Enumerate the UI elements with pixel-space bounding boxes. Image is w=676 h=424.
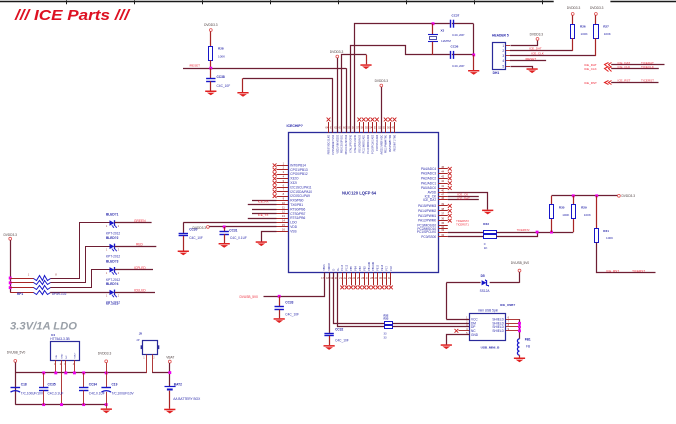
svg-text:55: 55 — [365, 125, 368, 129]
svg-text:BLED?1: BLED?1 — [106, 213, 119, 217]
svg-text:PA3/ADC3: PA3/ADC3 — [421, 172, 436, 176]
svg-text:PA15/PWM3: PA15/PWM3 — [418, 204, 436, 208]
svg-text:TICERST2: TICERST2 — [456, 219, 469, 223]
svg-text:C18: C18 — [21, 383, 27, 387]
svg-text:KP-2012: KP-2012 — [106, 302, 119, 306]
svg-text:DVDD3.3: DVDD3.3 — [3, 233, 17, 237]
svg-text:BLED?2: BLED?2 — [106, 236, 119, 240]
svg-text:C4C,20P: C4C,20P — [452, 33, 464, 37]
svg-text:PB10/CS1/SPISS2: PB10/CS1/SPISS2 — [346, 134, 348, 154]
svg-text:PC8/SS10/AD4: PC8/SS10/AD4 — [376, 134, 379, 151]
svg-text:CC31: CC31 — [229, 228, 237, 232]
svg-text:PC9/SPCLK1/AD3: PC9/SPCLK1/AD3 — [372, 134, 375, 154]
svg-text:ICECHIP?: ICECHIP? — [287, 124, 303, 128]
svg-text:PA1/ADC1: PA1/ADC1 — [421, 181, 436, 185]
svg-text:XTAL2/PF1/GPIO: XTAL2/PF1/GPIO — [354, 135, 357, 153]
svg-text:LDO: LDO — [290, 221, 297, 225]
svg-text:PB3: PB3 — [360, 266, 362, 271]
svg-text:51: 51 — [383, 125, 386, 129]
svg-text:PB8/STADC/CLKO: PB8/STADC/CLKO — [328, 135, 331, 155]
svg-text:33: 33 — [441, 228, 444, 232]
svg-text:100K: 100K — [604, 32, 611, 36]
svg-text:BAT2: BAT2 — [174, 382, 182, 386]
svg-text:15: 15 — [282, 223, 285, 227]
svg-text:DH1: DH1 — [493, 71, 500, 75]
svg-text:100K: 100K — [562, 213, 569, 217]
svg-text:54: 54 — [369, 125, 372, 129]
svg-text:ICPLED: ICPLED — [134, 266, 146, 270]
svg-text:ICE_USB?: ICE_USB? — [500, 303, 515, 307]
svg-text:VIN: VIN — [56, 355, 58, 359]
svg-text:5: 5 — [502, 64, 504, 68]
svg-text:D-: D- — [333, 268, 335, 271]
svg-text:PB11/PWM4/TM1: PB11/PWM4/TM1 — [386, 134, 388, 153]
svg-text:SS12A: SS12A — [480, 289, 491, 293]
svg-text:CC33: CC33 — [285, 301, 293, 305]
svg-text:AA BATTERY BOX: AA BATTERY BOX — [173, 397, 201, 401]
svg-text:I2C0SCL/PA9: I2C0SCL/PA9 — [290, 194, 310, 198]
svg-text:I2C1SCL/PA11: I2C1SCL/PA11 — [290, 185, 311, 189]
svg-text:43: 43 — [441, 174, 444, 178]
svg-text:ICE_CLK: ICE_CLK — [618, 65, 631, 69]
svg-text:GND: GND — [62, 353, 64, 358]
svg-text:R29: R29 — [581, 205, 587, 209]
svg-text:HEADER 5: HEADER 5 — [492, 34, 509, 38]
svg-text:26: 26 — [361, 276, 364, 280]
svg-text:VSS1/GND/AVSS: VSS1/GND/AVSS — [358, 134, 361, 153]
svg-text:J5: J5 — [139, 331, 143, 335]
svg-text:45: 45 — [441, 165, 444, 169]
svg-text:PA2/ADC2: PA2/ADC2 — [421, 177, 436, 181]
svg-text:C4C_10F: C4C_10F — [217, 84, 231, 88]
svg-text:PB15/INT1/TM3: PB15/INT1/TM3 — [395, 134, 397, 151]
svg-text:PC7: PC7 — [387, 265, 389, 270]
svg-text:KPT-2012: KPT-2012 — [106, 231, 120, 235]
svg-text:RED: RED — [136, 243, 144, 247]
svg-text:C19: C19 — [112, 383, 118, 387]
svg-text:NC: NC — [66, 355, 68, 359]
svg-text:28: 28 — [370, 276, 373, 280]
svg-text:C4C_10F: C4C_10F — [335, 339, 349, 343]
svg-text:23: 23 — [348, 276, 351, 280]
svg-text:VDD: VDD — [290, 225, 297, 229]
svg-text:PA4/ADC4: PA4/ADC4 — [421, 167, 436, 171]
svg-text:VDD1/VIN/VDD33: VDD1/VIN/VDD33 — [337, 134, 339, 153]
svg-text:29: 29 — [375, 276, 378, 280]
svg-text:3.3V/1A LDO: 3.3V/1A LDO — [10, 321, 78, 333]
svg-text:ICE_RST: ICE_RST — [584, 81, 597, 85]
svg-text:DVDD3.3: DVDD3.3 — [530, 32, 544, 36]
svg-text:30: 30 — [379, 276, 382, 280]
svg-text:VSS: VSS — [290, 229, 296, 233]
svg-text:FB1: FB1 — [525, 337, 531, 341]
svg-text:38: 38 — [441, 207, 444, 211]
svg-text:D5: D5 — [481, 274, 485, 278]
svg-text:2P: 2P — [137, 339, 140, 342]
svg-text:RTS0/PB6: RTS0/PB6 — [290, 207, 305, 211]
svg-text:TICERST2: TICERST2 — [517, 228, 530, 232]
svg-text:PC0/SS00: PC0/SS00 — [421, 235, 436, 239]
svg-text:PC10/MOSI1/AD2: PC10/MOSI1/AD2 — [367, 134, 370, 153]
svg-text:DVDD3.3: DVDD3.3 — [375, 79, 389, 83]
svg-text:TICERST: TICERST — [632, 269, 645, 273]
svg-text:C4C_10F: C4C_10F — [285, 312, 299, 316]
svg-text:PB4: PB4 — [355, 266, 357, 271]
svg-text:PC6: PC6 — [391, 265, 393, 270]
svg-text:4: 4 — [502, 59, 504, 63]
svg-text:R30: R30 — [559, 205, 565, 209]
svg-text:/RESET: /RESET — [525, 57, 536, 61]
svg-text:ICE_RST: ICE_RST — [606, 269, 619, 273]
svg-text:X32O: X32O — [290, 177, 299, 181]
svg-text:CPO0/PB12: CPO0/PB12 — [290, 172, 308, 176]
svg-text:PA14/PWM2: PA14/PWM2 — [418, 209, 436, 213]
svg-text:R28: R28 — [218, 47, 224, 51]
svg-text:CC35: CC35 — [48, 383, 56, 387]
svg-text:T/C,100UF/10V: T/C,100UF/10V — [21, 392, 44, 396]
svg-text:ICELED: ICELED — [134, 289, 146, 293]
svg-text:ICE_TX: ICE_TX — [258, 213, 269, 217]
svg-text:PC1/SPCLK0: PC1/SPCLK0 — [417, 230, 437, 234]
svg-text:X3: X3 — [441, 29, 445, 33]
svg-text:100K: 100K — [581, 32, 588, 36]
svg-text:GND: GND — [471, 333, 479, 337]
svg-text:12: 12 — [282, 210, 285, 214]
svg-text:ICE_DAT: ICE_DAT — [457, 196, 470, 200]
svg-text:PC13: PC13 — [342, 264, 344, 270]
svg-text:NUC120 LQFP 64: NUC120 LQFP 64 — [342, 190, 377, 195]
svg-text:DVDD3.3: DVDD3.3 — [590, 6, 604, 10]
svg-text:DVUSB_5V0: DVUSB_5V0 — [240, 295, 259, 299]
svg-text:49: 49 — [391, 125, 394, 129]
svg-text:R27: R27 — [603, 24, 609, 28]
svg-text:DVDD3.3: DVDD3.3 — [567, 6, 581, 10]
svg-text:1K: 1K — [484, 246, 488, 250]
svg-text:PE15: PE15 — [378, 264, 380, 270]
svg-text:X32I: X32I — [290, 181, 297, 185]
svg-text:PA13/PWM1: PA13/PWM1 — [418, 214, 436, 218]
svg-text:TX0/PB1: TX0/PB1 — [290, 203, 303, 207]
svg-text:PB9/CS0/SPISS1: PB9/CS0/SPISS1 — [342, 134, 344, 153]
svg-text:VOUT: VOUT — [74, 352, 76, 359]
svg-text:CC34: CC34 — [89, 383, 97, 387]
svg-text:36: 36 — [441, 217, 444, 221]
svg-text:/RESET: /RESET — [189, 64, 200, 68]
svg-text:RTS1/PB6: RTS1/PB6 — [290, 216, 305, 220]
svg-text:CC32: CC32 — [335, 328, 343, 332]
svg-text:57: 57 — [356, 125, 359, 129]
svg-text:50: 50 — [387, 125, 390, 129]
svg-text:TICERST: TICERST — [641, 79, 654, 83]
svg-text:27: 27 — [366, 276, 369, 280]
svg-text:TICECLK: TICECLK — [641, 65, 654, 69]
svg-text:AVDD1/VREF/ADC: AVDD1/VREF/ADC — [380, 134, 383, 154]
svg-text:2: 2 — [502, 49, 504, 53]
svg-text:BLED?4: BLED?4 — [106, 282, 119, 286]
svg-text:42: 42 — [441, 179, 444, 183]
svg-text:DVDD3.3: DVDD3.3 — [204, 23, 218, 27]
svg-text:47: 47 — [441, 192, 444, 196]
svg-text:PC11/MISO1/AD1: PC11/MISO1/AD1 — [363, 134, 366, 153]
svg-text:14: 14 — [282, 219, 285, 223]
svg-text:35: 35 — [441, 221, 444, 225]
svg-text:24: 24 — [352, 276, 355, 280]
svg-text:ICE_RST: ICE_RST — [618, 79, 631, 83]
svg-text:3: 3 — [502, 54, 504, 58]
svg-text:13: 13 — [282, 214, 285, 218]
svg-text:16: 16 — [282, 227, 285, 231]
svg-text:56: 56 — [361, 125, 364, 129]
svg-text:44: 44 — [441, 170, 444, 174]
svg-text:CTS0/PB7: CTS0/PB7 — [290, 212, 305, 216]
svg-text:KPT-2012: KPT-2012 — [106, 255, 120, 259]
svg-text:R33: R33 — [384, 317, 389, 321]
svg-text:PA12/PWM0: PA12/PWM0 — [418, 219, 436, 223]
svg-text:ICE_DAT: ICE_DAT — [423, 198, 436, 202]
svg-text:53: 53 — [374, 125, 377, 129]
svg-text:ICE_DAT: ICE_DAT — [529, 46, 542, 50]
svg-text:GREEN: GREEN — [134, 219, 146, 223]
svg-text:DVUSB_5V0: DVUSB_5V0 — [511, 261, 530, 265]
svg-text:C4C,0.1UF: C4C,0.1UF — [48, 392, 64, 396]
svg-text:37: 37 — [441, 212, 444, 216]
svg-text:C4C,20P: C4C,20P — [452, 64, 464, 68]
svg-text:21: 21 — [339, 276, 342, 280]
svg-text:FB: FB — [526, 344, 530, 348]
svg-text:PB0/AIN: PB0/AIN — [372, 261, 375, 270]
svg-text:64: 64 — [325, 125, 328, 129]
svg-text:DVDD3.3: DVDD3.3 — [193, 226, 207, 230]
svg-text:USB_MINI_B: USB_MINI_B — [481, 345, 501, 349]
svg-text:12MHZ: 12MHZ — [441, 39, 451, 43]
svg-text:T/C,100UF/10V: T/C,100UF/10V — [112, 392, 135, 396]
svg-text:100K: 100K — [218, 54, 225, 58]
svg-text:32: 32 — [388, 276, 391, 280]
svg-text:PB5: PB5 — [351, 266, 353, 271]
svg-text:/// ICE Parts ///: /// ICE Parts /// — [14, 7, 131, 24]
svg-text:25: 25 — [357, 276, 360, 280]
svg-text:40: 40 — [441, 188, 444, 192]
svg-text:INT0/PB14: INT0/PB14 — [290, 163, 306, 167]
svg-text:BLED?3: BLED?3 — [106, 260, 119, 264]
svg-text:I2C1SDA/PA10: I2C1SDA/PA10 — [290, 190, 312, 194]
svg-text:31: 31 — [383, 276, 386, 280]
svg-text:C4C_10F: C4C_10F — [189, 236, 203, 240]
svg-text:SHIELD: SHIELD — [492, 329, 504, 333]
svg-text:R26: R26 — [580, 24, 586, 28]
svg-text:VBAT: VBAT — [166, 355, 174, 359]
svg-text:100K: 100K — [584, 213, 591, 217]
svg-text:PE14: PE14 — [382, 264, 384, 270]
svg-text:R31: R31 — [603, 229, 609, 233]
svg-text:VBUS: VBUS — [324, 264, 326, 271]
svg-text:PA0/ADC0: PA0/ADC0 — [421, 186, 436, 190]
svg-text:ICE_CLK: ICE_CLK — [584, 67, 597, 71]
svg-text:DVDD3.3: DVDD3.3 — [98, 352, 112, 356]
svg-text:DVDD3.3: DVDD3.3 — [622, 194, 636, 198]
svg-text:PB1/AIN: PB1/AIN — [368, 261, 371, 270]
svg-text:VDD33: VDD33 — [329, 262, 331, 270]
svg-text:RP1: RP1 — [17, 292, 23, 296]
svg-text:DVUSB_5V0: DVUSB_5V0 — [7, 351, 26, 355]
svg-text:CC38: CC38 — [217, 75, 225, 79]
svg-text:TICERST1: TICERST1 — [456, 222, 469, 226]
svg-text:ICE_RX: ICE_RX — [258, 199, 269, 203]
svg-text:C4C_0.1UF: C4C_0.1UF — [230, 236, 247, 240]
svg-text:PVSS/RESET/VSS: PVSS/RESET/VSS — [333, 134, 335, 154]
svg-text:CC36: CC36 — [451, 45, 459, 49]
svg-text:1: 1 — [502, 44, 504, 48]
svg-text:CPO1/PB13: CPO1/PB13 — [290, 168, 308, 172]
svg-text:HT75A3-3.3B: HT75A3-3.3B — [50, 337, 69, 341]
svg-text:mini USB 5pin: mini USB 5pin — [478, 308, 498, 312]
svg-text:RX0/PB0: RX0/PB0 — [290, 199, 303, 203]
svg-text:32: 32 — [441, 233, 444, 237]
svg-text:10: 10 — [282, 201, 285, 205]
svg-text:100K: 100K — [606, 236, 613, 240]
svg-text:22: 22 — [344, 276, 347, 280]
svg-text:PB2: PB2 — [364, 266, 366, 271]
svg-text:R33: R33 — [483, 222, 489, 226]
svg-text:ICE_CLK: ICE_CLK — [531, 52, 544, 56]
svg-text:XTAL1/PF0/GPIO: XTAL1/PF0/GPIO — [350, 135, 353, 153]
svg-text:39: 39 — [441, 202, 444, 206]
svg-text:C4C,0.1UF: C4C,0.1UF — [89, 392, 105, 396]
svg-text:PC12: PC12 — [347, 264, 349, 270]
svg-text:8P4R-102: 8P4R-102 — [52, 292, 67, 296]
svg-text:DVDD3.3: DVDD3.3 — [330, 50, 344, 54]
svg-text:CC37: CC37 — [452, 14, 460, 18]
svg-text:46: 46 — [441, 196, 444, 200]
svg-text:11: 11 — [282, 205, 285, 209]
svg-text:PE5/PWM5/TM2: PE5/PWM5/TM2 — [390, 134, 392, 152]
svg-text:41: 41 — [441, 184, 444, 188]
